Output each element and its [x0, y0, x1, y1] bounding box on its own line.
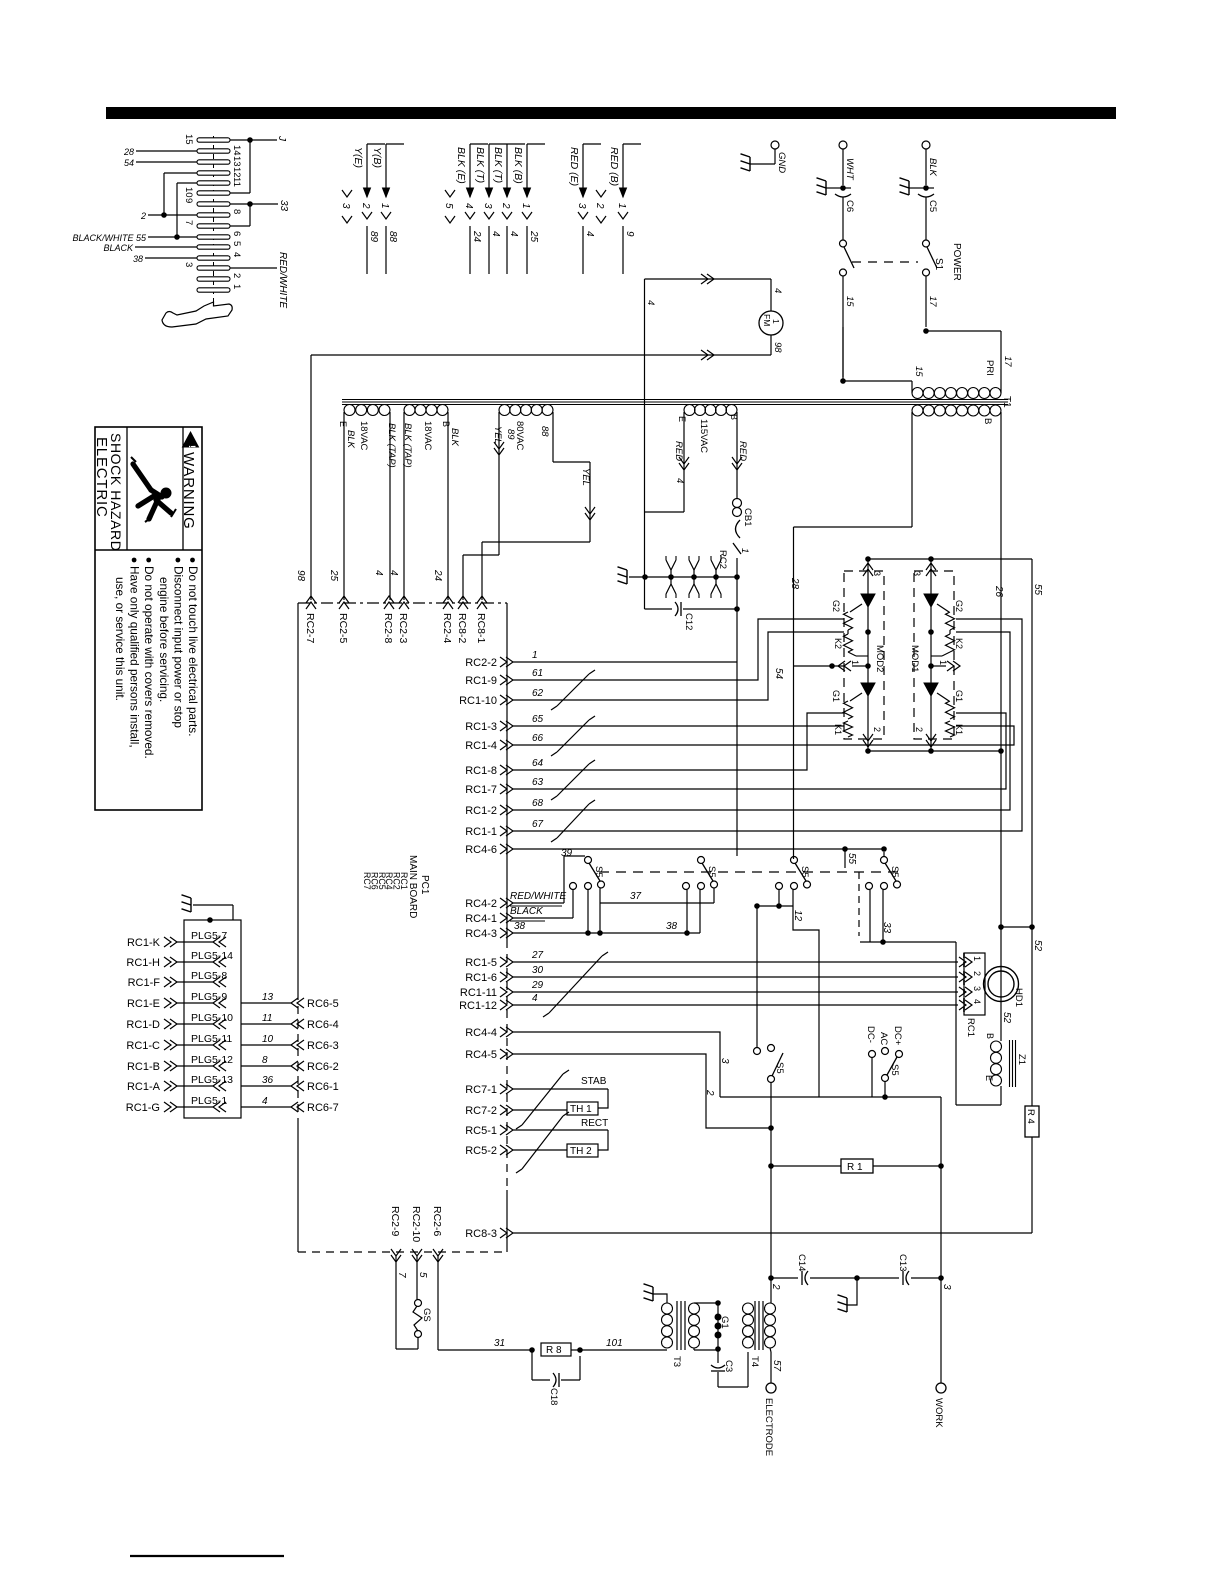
svg-text:11: 11	[231, 177, 242, 187]
svg-text:1: 1	[771, 319, 781, 324]
svg-text:RED/WHITE: RED/WHITE	[277, 252, 288, 308]
svg-text:RC1: RC1	[965, 1018, 976, 1037]
svg-text:T1: T1	[1001, 396, 1012, 408]
svg-text:RED (B): RED (B)	[608, 147, 620, 186]
svg-text:RC1-2: RC1-2	[465, 805, 497, 817]
svg-text:4: 4	[388, 570, 399, 576]
svg-text:54: 54	[773, 668, 784, 680]
svg-text:RC1-9: RC1-9	[465, 675, 497, 687]
svg-text:Y(E): Y(E)	[352, 147, 364, 168]
svg-text:30: 30	[532, 965, 544, 976]
svg-text:2: 2	[872, 727, 882, 732]
svg-text:RC2-2: RC2-2	[465, 657, 497, 669]
svg-text:C13: C13	[897, 1254, 908, 1271]
svg-text:10: 10	[183, 187, 194, 198]
svg-text:RC8-1: RC8-1	[475, 613, 487, 644]
svg-text:Z1: Z1	[1016, 1054, 1027, 1065]
svg-text:RC4-5: RC4-5	[465, 1049, 497, 1061]
svg-text:27: 27	[531, 950, 544, 961]
svg-text:2: 2	[500, 202, 511, 209]
svg-text:GND: GND	[776, 152, 787, 173]
svg-text:PLG5-7: PLG5-7	[191, 930, 227, 942]
svg-text:28: 28	[789, 577, 800, 590]
svg-text:8: 8	[262, 1055, 268, 1066]
svg-text:RC4-6: RC4-6	[465, 844, 497, 856]
svg-text:2: 2	[704, 1089, 715, 1096]
svg-text:4: 4	[373, 570, 384, 576]
svg-text:98: 98	[772, 342, 783, 353]
svg-text:52: 52	[1001, 1012, 1012, 1024]
svg-text:Do not touch live electrical p: Do not touch live electrical parts.	[186, 566, 200, 736]
svg-text:52: 52	[1032, 940, 1043, 952]
svg-text:PLG5-1: PLG5-1	[191, 1095, 227, 1107]
svg-text:RC6-7: RC6-7	[307, 1102, 339, 1114]
svg-text:2: 2	[594, 202, 605, 209]
svg-text:1: 1	[616, 203, 627, 209]
svg-text:4: 4	[490, 231, 501, 237]
svg-text:RC4-2: RC4-2	[465, 898, 497, 910]
svg-text:RC1-10: RC1-10	[459, 695, 497, 707]
svg-text:1: 1	[379, 203, 390, 209]
svg-text:98: 98	[295, 570, 306, 582]
svg-text:RC1-E: RC1-E	[127, 998, 160, 1010]
svg-text:1: 1	[520, 203, 531, 209]
svg-text:61: 61	[532, 668, 543, 679]
svg-text:RC7: RC7	[362, 872, 372, 890]
svg-text:BLK (T): BLK (T)	[492, 147, 504, 183]
svg-text:C3: C3	[723, 1360, 734, 1372]
svg-text:RED (E): RED (E)	[568, 147, 580, 186]
svg-text:3: 3	[719, 1058, 730, 1064]
svg-text:CB1: CB1	[742, 508, 753, 526]
svg-text:RC2-10: RC2-10	[410, 1206, 422, 1242]
svg-text:80VAC: 80VAC	[514, 421, 525, 451]
svg-text:S5: S5	[593, 866, 604, 878]
svg-text:Disconnect input power or stop: Disconnect input power or stop	[171, 566, 185, 728]
svg-text:3: 3	[340, 203, 351, 209]
svg-text:FM: FM	[762, 314, 772, 326]
svg-text:S5: S5	[889, 866, 900, 878]
svg-text:17: 17	[1002, 356, 1013, 367]
svg-text:4: 4	[584, 231, 595, 237]
svg-text:RC1-D: RC1-D	[126, 1019, 160, 1031]
svg-text:S5: S5	[799, 866, 810, 878]
svg-text:RC2-3: RC2-3	[397, 613, 409, 644]
svg-text:RC1-6: RC1-6	[465, 972, 497, 984]
svg-text:57: 57	[771, 1360, 782, 1372]
svg-text:115VAC: 115VAC	[698, 419, 709, 453]
svg-text:RC1-1: RC1-1	[465, 826, 497, 838]
svg-text:36: 36	[262, 1075, 274, 1086]
svg-text:1: 1	[850, 660, 860, 665]
svg-text:GS: GS	[421, 1308, 432, 1322]
svg-text:14: 14	[231, 145, 242, 156]
svg-text:SHOCK HAZARD: SHOCK HAZARD	[108, 433, 124, 551]
svg-text:RC5-2: RC5-2	[465, 1145, 497, 1157]
svg-text:PLG5-13: PLG5-13	[191, 1074, 233, 1086]
svg-text:12: 12	[231, 167, 242, 178]
svg-text:C18: C18	[548, 1388, 559, 1405]
svg-text:24: 24	[432, 569, 443, 582]
svg-text:4: 4	[532, 993, 538, 1004]
svg-text:63: 63	[532, 777, 544, 788]
svg-text:PLG5-9: PLG5-9	[191, 991, 227, 1003]
svg-text:C12: C12	[683, 613, 694, 630]
svg-text:RC2: RC2	[717, 550, 728, 569]
svg-text:PLG5-14: PLG5-14	[191, 950, 233, 962]
svg-text:88: 88	[539, 426, 550, 437]
svg-text:55: 55	[846, 853, 857, 865]
svg-text:PC1: PC1	[419, 875, 430, 895]
svg-text:Have only qualified persons in: Have only qualified persons install,	[128, 566, 142, 748]
svg-text:RED: RED	[673, 441, 684, 461]
svg-text:25: 25	[328, 569, 339, 582]
svg-text:33: 33	[278, 200, 289, 212]
svg-text:5: 5	[443, 203, 454, 209]
svg-text:RC6-4: RC6-4	[307, 1019, 339, 1031]
svg-text:RC4-1: RC4-1	[465, 913, 497, 925]
svg-text:B: B	[441, 421, 451, 427]
svg-text:RC1-C: RC1-C	[126, 1040, 160, 1052]
svg-text:2: 2	[231, 273, 242, 278]
svg-text:RC2-6: RC2-6	[431, 1206, 443, 1237]
svg-text:BLK: BLK	[449, 428, 460, 447]
svg-text:BLK: BLK	[345, 430, 356, 449]
svg-text:15: 15	[913, 366, 924, 377]
svg-text:G2: G2	[831, 600, 841, 612]
svg-text:7: 7	[396, 1272, 407, 1278]
svg-text:RC4-3: RC4-3	[465, 928, 497, 940]
svg-text:E: E	[338, 421, 348, 427]
svg-text:38: 38	[666, 921, 678, 932]
svg-text:4: 4	[972, 999, 982, 1004]
svg-text:MOD1: MOD1	[909, 645, 920, 672]
svg-text:RC8-2: RC8-2	[456, 613, 468, 644]
svg-text:55: 55	[1032, 584, 1043, 596]
svg-text:65: 65	[532, 714, 544, 725]
svg-text:33: 33	[881, 922, 892, 934]
svg-text:BLK (T): BLK (T)	[474, 147, 486, 183]
svg-text:S5: S5	[706, 866, 717, 878]
svg-text:E: E	[984, 1075, 994, 1081]
svg-text:1: 1	[739, 548, 750, 553]
svg-text:RC2-7: RC2-7	[304, 613, 316, 644]
svg-text:101: 101	[606, 1338, 623, 1349]
svg-text:1: 1	[972, 956, 982, 961]
svg-text:C5: C5	[927, 200, 938, 212]
svg-text:1: 1	[231, 284, 242, 289]
svg-text:26: 26	[993, 585, 1004, 598]
svg-text:G2: G2	[954, 600, 964, 612]
svg-text:C6: C6	[844, 200, 855, 212]
svg-text:38: 38	[514, 921, 526, 932]
svg-text:WHT: WHT	[844, 158, 855, 181]
svg-text:RC1-F: RC1-F	[128, 977, 161, 989]
svg-text:T4: T4	[749, 1356, 760, 1367]
svg-text:TH 1: TH 1	[570, 1104, 592, 1115]
svg-text:WARNING: WARNING	[180, 452, 197, 530]
svg-text:39: 39	[561, 848, 573, 859]
svg-text:R 1: R 1	[847, 1162, 863, 1173]
svg-text:S1: S1	[933, 258, 944, 271]
svg-text:RC6-2: RC6-2	[307, 1061, 339, 1073]
svg-text:PRI: PRI	[984, 360, 995, 376]
svg-text:4: 4	[262, 1096, 268, 1107]
svg-text:RC1-11: RC1-11	[460, 987, 497, 999]
svg-text:RC1-5: RC1-5	[465, 957, 497, 969]
svg-text:3: 3	[183, 262, 194, 267]
svg-text:G1: G1	[719, 1316, 730, 1329]
svg-text:4: 4	[645, 300, 656, 305]
svg-text:2: 2	[770, 1283, 781, 1290]
svg-text:3: 3	[912, 571, 922, 576]
svg-text:3: 3	[972, 986, 982, 991]
svg-text:5: 5	[231, 241, 242, 246]
svg-text:Y(B): Y(B)	[371, 147, 383, 168]
svg-text:RC4-4: RC4-4	[465, 1027, 497, 1039]
svg-text:13: 13	[231, 156, 242, 167]
svg-text:64: 64	[532, 758, 544, 769]
svg-text:K2: K2	[833, 638, 843, 649]
svg-text:YEL: YEL	[492, 426, 503, 444]
svg-text:STAB: STAB	[581, 1076, 607, 1087]
svg-text:R 8: R 8	[546, 1345, 562, 1356]
svg-text:WORK: WORK	[933, 1398, 944, 1428]
svg-text:4: 4	[508, 231, 519, 237]
svg-text:88: 88	[387, 231, 398, 243]
svg-text:T3: T3	[671, 1356, 682, 1367]
svg-text:RC1-8: RC1-8	[465, 765, 497, 777]
svg-text:G1: G1	[954, 690, 964, 702]
svg-text:BLACK: BLACK	[103, 243, 134, 253]
svg-text:9: 9	[183, 198, 194, 203]
svg-text:C14: C14	[796, 1254, 807, 1271]
svg-text:ELECTRIC: ELECTRIC	[93, 437, 110, 518]
svg-text:RC8-3: RC8-3	[465, 1228, 497, 1240]
svg-text:3: 3	[941, 1284, 952, 1290]
svg-text:2: 2	[972, 971, 982, 976]
svg-text:RC6-1: RC6-1	[307, 1081, 339, 1093]
svg-text:use, or service this unit.: use, or service this unit.	[113, 577, 127, 701]
svg-text:89: 89	[368, 231, 379, 243]
svg-text:PLG5-12: PLG5-12	[191, 1054, 233, 1066]
svg-text:29: 29	[531, 980, 544, 991]
svg-text:68: 68	[532, 798, 544, 809]
svg-text:25: 25	[528, 230, 539, 243]
svg-text:S5: S5	[889, 1064, 900, 1076]
svg-text:RC2-9: RC2-9	[389, 1206, 401, 1237]
svg-text:K2: K2	[954, 638, 964, 649]
svg-text:BLACK/WHITE 55: BLACK/WHITE 55	[72, 233, 147, 243]
svg-text:4: 4	[463, 203, 474, 209]
svg-text:POWER: POWER	[951, 243, 962, 281]
svg-text:BLK (TAP): BLK (TAP)	[402, 423, 413, 468]
svg-text:S5: S5	[774, 1062, 785, 1074]
svg-text:RC1-K: RC1-K	[127, 937, 161, 949]
svg-text:RC1-12: RC1-12	[459, 1000, 497, 1012]
svg-text:RC1-G: RC1-G	[126, 1102, 160, 1114]
svg-text:6: 6	[231, 231, 242, 236]
svg-text:3: 3	[576, 203, 587, 209]
svg-text:24: 24	[471, 230, 482, 243]
svg-text:PLG5-11: PLG5-11	[191, 1033, 232, 1045]
svg-text:2: 2	[360, 202, 371, 209]
svg-text:PLG5-10: PLG5-10	[191, 1012, 233, 1024]
svg-text:66: 66	[532, 733, 544, 744]
svg-text:28: 28	[123, 147, 134, 157]
svg-text:18VAC: 18VAC	[422, 421, 433, 451]
svg-text:5: 5	[417, 1272, 428, 1278]
svg-text:12: 12	[792, 910, 803, 922]
svg-text:RC1-4: RC1-4	[465, 740, 497, 752]
svg-text:10: 10	[262, 1034, 274, 1045]
svg-text:2: 2	[914, 727, 924, 732]
svg-text:RED/WHITE: RED/WHITE	[510, 891, 566, 902]
svg-text:54: 54	[124, 158, 134, 168]
svg-text:BLK (E): BLK (E)	[455, 147, 467, 184]
svg-text:RC1-H: RC1-H	[126, 957, 160, 969]
svg-text:RC6-3: RC6-3	[307, 1040, 339, 1052]
svg-text:17: 17	[927, 296, 938, 307]
svg-text:RC1-3: RC1-3	[465, 721, 497, 733]
svg-text:3: 3	[482, 203, 493, 209]
svg-text:9: 9	[624, 231, 635, 237]
svg-text:RC2-8: RC2-8	[382, 613, 394, 644]
svg-text:DC+: DC+	[892, 1026, 903, 1046]
svg-text:DC-: DC-	[865, 1026, 876, 1043]
svg-text:engine before servicing.: engine before servicing.	[157, 577, 171, 702]
svg-text:RC1-7: RC1-7	[465, 784, 497, 796]
svg-text:E: E	[677, 416, 687, 422]
svg-text:RC1-B: RC1-B	[127, 1061, 160, 1073]
svg-text:ELECTRODE: ELECTRODE	[763, 1398, 774, 1456]
svg-text:4: 4	[674, 478, 685, 483]
svg-text:37: 37	[630, 891, 642, 902]
svg-text:RC1-A: RC1-A	[127, 1081, 161, 1093]
svg-text:BLACK: BLACK	[510, 906, 544, 917]
svg-text:B: B	[985, 1033, 995, 1039]
svg-text:J: J	[276, 135, 287, 142]
svg-text:TH 2: TH 2	[570, 1146, 592, 1157]
svg-text:RC5-1: RC5-1	[465, 1125, 497, 1137]
svg-text:YEL: YEL	[580, 468, 591, 486]
svg-text:11: 11	[262, 1013, 272, 1024]
svg-text:67: 67	[532, 819, 544, 830]
svg-text:G1: G1	[831, 690, 841, 702]
svg-text:RC6-5: RC6-5	[307, 998, 339, 1010]
svg-text:1: 1	[938, 660, 948, 665]
svg-text:BLK (TAP): BLK (TAP)	[386, 423, 397, 468]
svg-text:RC7-1: RC7-1	[465, 1084, 497, 1096]
svg-text:AC: AC	[878, 1032, 889, 1045]
svg-text:4: 4	[231, 252, 242, 257]
svg-text:RED: RED	[737, 441, 748, 461]
svg-text:RC2-4: RC2-4	[441, 613, 453, 644]
svg-text:R 4: R 4	[1025, 1109, 1036, 1124]
svg-text:3: 3	[872, 571, 882, 576]
svg-text:RECT: RECT	[581, 1118, 608, 1129]
svg-text:!: !	[187, 445, 197, 448]
svg-text:2: 2	[140, 211, 146, 221]
svg-text:1: 1	[532, 650, 538, 661]
svg-text:HD1: HD1	[1013, 988, 1024, 1007]
svg-text:RC2-5: RC2-5	[337, 613, 349, 644]
svg-text:31: 31	[494, 1338, 505, 1349]
svg-text:Do not operate with covers rem: Do not operate with covers removed.	[142, 566, 156, 759]
svg-text:13: 13	[262, 992, 274, 1003]
svg-text:7: 7	[183, 220, 194, 225]
svg-text:15: 15	[183, 134, 194, 145]
svg-text:B: B	[982, 418, 993, 424]
svg-text:18VAC: 18VAC	[358, 421, 369, 451]
svg-text:38: 38	[133, 254, 143, 264]
svg-text:4: 4	[772, 288, 783, 293]
svg-text:8: 8	[231, 209, 242, 214]
svg-text:PLG5-8: PLG5-8	[191, 970, 227, 982]
svg-text:BLK (B): BLK (B)	[512, 147, 524, 184]
svg-text:BLK: BLK	[927, 158, 938, 177]
svg-text:15: 15	[844, 296, 855, 307]
svg-text:MOD2: MOD2	[874, 645, 885, 672]
svg-text:62: 62	[532, 688, 544, 699]
svg-text:RC7-2: RC7-2	[465, 1105, 497, 1117]
